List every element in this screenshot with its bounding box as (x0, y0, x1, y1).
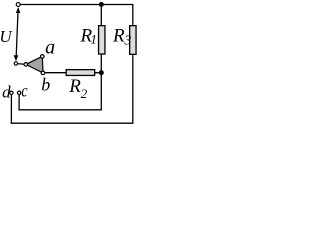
wire terminal c stem (18, 95, 20, 110)
svg-text:1: 1 (90, 32, 97, 47)
wire bottom outer horizontal (11, 122, 134, 124)
wire middle vertical (R1/R2 node line) (100, 5, 102, 111)
wire R2 right lead (95, 72, 101, 74)
svg-text:R: R (112, 26, 125, 47)
junction dot top node (99, 2, 104, 7)
terminal circle triangle apex (24, 63, 28, 67)
potentiometer wiper triangle (26, 56, 43, 73)
terminal d circle (10, 91, 13, 94)
wire bottom inner horizontal (18, 109, 101, 111)
resistor R2 body (66, 70, 95, 76)
junction dot R1-R2 node (99, 70, 104, 75)
terminal top circle (16, 3, 20, 7)
wire terminal d stem (10, 95, 12, 124)
svg-text:c: c (21, 81, 27, 101)
svg-text:R: R (68, 76, 81, 97)
wire top horizontal (20, 4, 133, 6)
svg-text:d: d (2, 83, 11, 102)
terminal a circle (41, 55, 45, 59)
svg-text:2: 2 (81, 86, 88, 101)
svg-text:U: U (0, 27, 13, 46)
svg-text:b: b (41, 74, 50, 94)
resistor R1 body (99, 26, 105, 54)
svg-text:3: 3 (123, 34, 131, 49)
terminal b circle (41, 71, 45, 75)
svg-text:a: a (45, 37, 55, 59)
terminal circle at arrow end (14, 62, 17, 65)
terminal c circle (17, 91, 20, 94)
wire between arrow terminal and triangle apex (16, 63, 26, 66)
resistor R3 body (130, 26, 136, 55)
voltage arrow U (double-headed) (14, 7, 21, 61)
wire R2 left lead (45, 72, 66, 74)
wire right vertical (R3 branch) (132, 5, 134, 124)
